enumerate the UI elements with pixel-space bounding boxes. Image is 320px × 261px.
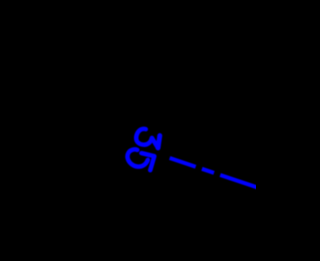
label digit 3 (rotated ~108deg): top-bar stroke	[158, 136, 160, 148]
label digit 3 (rotated ~108deg): diagonal and bowl	[136, 129, 158, 148]
label digit 5 (rotated ~108deg): bowl	[127, 149, 147, 166]
wire: dashed blue route line running to lower-right corner	[170, 158, 262, 189]
label digit 5 (rotated ~108deg): stem and flag	[141, 153, 154, 170]
